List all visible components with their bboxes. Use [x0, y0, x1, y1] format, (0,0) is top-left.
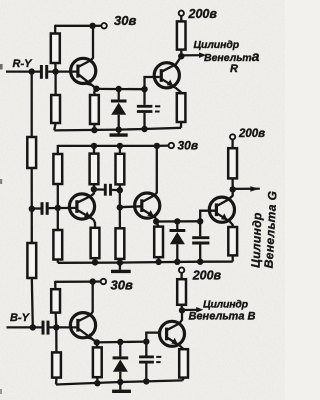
- node Q3 collector: [91, 186, 97, 192]
- node output R: [178, 53, 184, 59]
- capacitor C5: [192, 238, 209, 243]
- wire emitter to R3: [94, 89, 96, 95]
- terminal 30v stage3: [101, 279, 106, 284]
- wire Q4 emitter to node: [155, 218, 157, 222]
- wire Q2 collector: [162, 56, 181, 71]
- resistor R4: [177, 93, 186, 122]
- node C5 ground junction: [197, 259, 203, 265]
- wire D1 top lead: [118, 89, 120, 100]
- arrowhead output G: [250, 186, 259, 191]
- node diode D3 top: [117, 339, 123, 345]
- resistor Rm1: [27, 137, 36, 168]
- scan smudge left edge 1: [0, 64, 3, 70]
- node Q4 divider C4 junction: [117, 187, 123, 193]
- wire R8 to ground rail: [94, 258, 96, 262]
- wire C6 to Q6 base: [50, 326, 78, 328]
- label Cylinder Wehnelt G (rotated): [249, 190, 280, 268]
- node matrix tap: [29, 206, 35, 212]
- svg-text:30в: 30в: [114, 13, 136, 28]
- wire emitter to R17: [96, 342, 99, 347]
- svg-text:R: R: [230, 63, 238, 75]
- capacitor C1: [41, 65, 46, 79]
- wire C2 bottom lead: [143, 113, 145, 129]
- resistor R6: [53, 154, 62, 184]
- resistor R8: [91, 228, 100, 258]
- resistor R11: [116, 228, 125, 259]
- wire R12 to ground rail: [157, 257, 159, 262]
- diode D1: [111, 101, 127, 115]
- wire output arrow R: [181, 54, 200, 56]
- resistor R1: [51, 34, 60, 64]
- transistor Q4: [135, 193, 160, 218]
- wire divider to base node: [119, 190, 121, 207]
- svg-text:Цилиндр: Цилиндр: [203, 299, 249, 311]
- node 30v junction: [89, 23, 95, 29]
- node R17 ground junction: [94, 380, 100, 386]
- ground stage3: [112, 382, 131, 391]
- resistor R15: [51, 289, 60, 312]
- node Q4 emitter: [153, 218, 159, 224]
- wire 200v to R19: [180, 273, 182, 279]
- wire Q7 collector: [168, 310, 182, 329]
- wire C5 top lead: [199, 221, 201, 236]
- wire C7 bottom lead: [145, 364, 147, 382]
- diode D3: [113, 358, 129, 372]
- wire R-Y input: [6, 70, 40, 72]
- wire Q4 collector: [143, 146, 157, 202]
- wire base to R16: [55, 327, 57, 352]
- resistor R12: [154, 227, 163, 258]
- wire to 30v terminal stage3: [93, 280, 101, 282]
- node output B: [179, 307, 185, 313]
- capacitor C6: [43, 321, 48, 335]
- scan smudge left edge 3: [0, 389, 2, 394]
- wire R5 to output node: [180, 50, 182, 57]
- wire Q3 collector: [78, 189, 94, 202]
- wire R4 to ground rail: [180, 122, 182, 128]
- wire R10 to C4 node: [119, 184, 121, 190]
- node R8 ground junction: [92, 259, 98, 265]
- wire base node to R11: [119, 207, 121, 228]
- node output G: [230, 186, 236, 192]
- resistor R13: [228, 227, 237, 255]
- svg-text:R-Y: R-Y: [13, 58, 34, 70]
- wire D3 bottom lead: [119, 372, 121, 382]
- wire R17 to ground rail: [96, 377, 98, 383]
- wire Q1 emitter node: [96, 88, 144, 91]
- svg-text:Цилиндр: Цилиндр: [194, 39, 240, 51]
- wire 200v to R5: [180, 16, 182, 22]
- wire Q2 base elbow: [145, 77, 160, 89]
- wire R19 to output node: [180, 305, 183, 311]
- wire 30v rail stage1: [55, 25, 93, 27]
- capacitor C2: [137, 106, 153, 111]
- node Q1 emitter: [93, 86, 99, 92]
- svg-text:Венельта В: Венельта В: [189, 310, 256, 322]
- capacitor C7: [139, 357, 154, 362]
- node C7 top: [143, 338, 149, 344]
- wire R11 to ground rail: [119, 259, 121, 263]
- node R3 ground junction: [91, 127, 97, 133]
- transistor Q5: [209, 197, 234, 222]
- resistor R5: [177, 21, 186, 49]
- node D1 ground junction: [116, 126, 122, 132]
- wire rail elbow to R6: [57, 145, 59, 154]
- terminal 200v stage2: [230, 134, 235, 139]
- wire Q5 emitter to R13: [230, 221, 233, 227]
- wire Rm1 to tap: [31, 168, 33, 243]
- resistor R9: [90, 154, 99, 185]
- wire Q3 emitter to R8: [94, 220, 95, 228]
- wire Q7 emitter to R18: [180, 346, 184, 349]
- wire D2 bottom lead: [176, 244, 178, 262]
- scan smudge left edge 2: [0, 179, 2, 184]
- resistor Rm2: [27, 243, 36, 278]
- ground stage1: [110, 130, 128, 136]
- node input junction J2: [30, 324, 36, 330]
- diode D2: [170, 231, 186, 245]
- wire R18 to ground rail: [182, 378, 185, 381]
- arrowhead output B: [196, 307, 203, 313]
- node C5 top junction: [197, 218, 203, 224]
- wire R13 to ground rail: [232, 255, 234, 261]
- svg-text:30в: 30в: [178, 138, 199, 152]
- wire rail elbow to R15: [54, 281, 57, 289]
- wire rail elbow to R1: [54, 25, 56, 34]
- wire collector node to C4: [94, 188, 105, 191]
- capacitor C2 polarity marks: [155, 106, 160, 111]
- resistor R14: [228, 148, 237, 178]
- wire ground rail stage1: [54, 128, 181, 131]
- node ground rail stage2: [117, 259, 123, 265]
- transistor Q3: [69, 194, 94, 220]
- node base divider junction: [52, 68, 58, 74]
- arrowhead output R: [199, 52, 206, 58]
- wire base node to R7: [57, 208, 59, 230]
- capacitor C3: [42, 202, 47, 215]
- node D3 ground junction: [117, 379, 123, 385]
- wire C7 top lead: [145, 342, 147, 356]
- wire Q7 base elbow: [146, 333, 161, 342]
- svg-text:200в: 200в: [238, 128, 265, 140]
- wire R1 to base: [54, 63, 56, 72]
- node Q6 base divider junction: [53, 324, 59, 330]
- wire D3 top lead: [119, 342, 121, 356]
- wire D2 top lead: [176, 221, 178, 229]
- wire Q6 emitter node: [97, 340, 147, 343]
- svg-text:B-Y: B-Y: [10, 312, 31, 324]
- node 30v rail R10 junction: [117, 143, 123, 149]
- wire R15 to base: [54, 313, 57, 328]
- wire B-Y input: [7, 326, 42, 328]
- wire 200v to R14: [231, 140, 233, 149]
- wire C2 top lead: [143, 89, 145, 105]
- wire R3 to ground rail: [93, 124, 95, 130]
- transistor Q6: [70, 313, 96, 343]
- wire matrix tap to C3: [32, 207, 41, 209]
- node R12 ground junction: [155, 259, 161, 265]
- wire rail to R9: [93, 146, 95, 154]
- wire Q5 base elbow: [200, 211, 216, 222]
- resistor R17: [93, 347, 102, 377]
- node C2 ground junction: [141, 126, 147, 132]
- node Q6 emitter: [94, 339, 100, 345]
- node Q3 base junction: [55, 205, 61, 211]
- wire R9 to collector node: [93, 184, 95, 189]
- wire Rm2 to B-Y junction: [32, 278, 33, 327]
- wire Q1 collector: [79, 26, 93, 67]
- terminal 30v stage2: [169, 143, 174, 148]
- capacitor C4: [105, 184, 110, 196]
- wire Q6 collector: [79, 282, 93, 321]
- wire emitter to R12: [156, 222, 158, 227]
- label Cylinder Wehnelt B: [189, 299, 256, 323]
- transistor Q2: [154, 63, 179, 88]
- terminal 30v stage1: [101, 23, 106, 28]
- transistor Q7: [160, 321, 185, 346]
- wire ground rail stage3: [56, 380, 183, 384]
- wire base node to Q4: [120, 205, 142, 208]
- wire ground rail stage2: [58, 262, 233, 263]
- node Q4 base junction: [117, 204, 123, 210]
- wire base to R2: [54, 72, 56, 95]
- wire R16 to ground rail: [55, 378, 58, 385]
- label Cylinder Wehnelt R: [194, 39, 260, 75]
- node C2 top: [141, 86, 147, 92]
- node D2 ground junction: [174, 259, 180, 265]
- wire output arrow B: [182, 309, 198, 311]
- wire D1 bottom lead: [118, 115, 120, 130]
- ground stage2: [111, 263, 131, 272]
- wire Q4 emitter rail: [156, 220, 200, 222]
- wire to 30v terminal: [93, 25, 102, 27]
- wire 30v rail stage3: [55, 280, 92, 282]
- resistor R18: [179, 349, 188, 377]
- node diode D2 top: [174, 218, 180, 224]
- resistor R3: [90, 95, 99, 124]
- node 30v rail R9 junction: [91, 143, 97, 149]
- wire matrix from R-Y junction: [31, 72, 33, 137]
- node diode D1 top: [116, 86, 122, 92]
- wire R7 to ground rail: [57, 260, 59, 263]
- terminal 200v shared: [179, 267, 184, 272]
- node 30v rail Q4 collector junction: [154, 143, 160, 149]
- wire R6 to base node: [57, 184, 59, 208]
- wire output arrow G: [233, 188, 260, 190]
- resistor R19: [177, 279, 186, 305]
- resistor R10: [116, 154, 125, 185]
- svg-text:30в: 30в: [111, 278, 133, 293]
- wire C1 to Q1 base: [48, 70, 78, 72]
- wire 30v rail stage2: [58, 145, 157, 147]
- resistor R7: [53, 230, 62, 260]
- wire R2 to ground rail: [54, 123, 55, 130]
- wire C3 to Q3 base: [49, 207, 77, 210]
- wire C4 to Q4 divider: [112, 189, 120, 192]
- wire rail to 30v terminal: [157, 144, 169, 147]
- resistor R16: [52, 352, 61, 377]
- wire R14 to output node: [231, 178, 233, 189]
- resistor R2: [51, 95, 60, 123]
- wire C5 bottom lead: [199, 244, 201, 261]
- terminal 200v stage1: [179, 11, 184, 16]
- wire Q5 collector: [217, 189, 232, 205]
- wire rail to R10: [119, 146, 121, 154]
- node C7 ground junction: [143, 378, 149, 384]
- node 30v junction stage3: [90, 278, 96, 284]
- capacitor C7 polarity marks: [156, 357, 161, 362]
- wire Q2 emitter to R4: [175, 88, 181, 94]
- svg-text:200в: 200в: [188, 7, 218, 21]
- node input junction J1: [29, 68, 35, 74]
- transistor Q1: [71, 58, 97, 88]
- svg-text:200в: 200в: [192, 269, 222, 283]
